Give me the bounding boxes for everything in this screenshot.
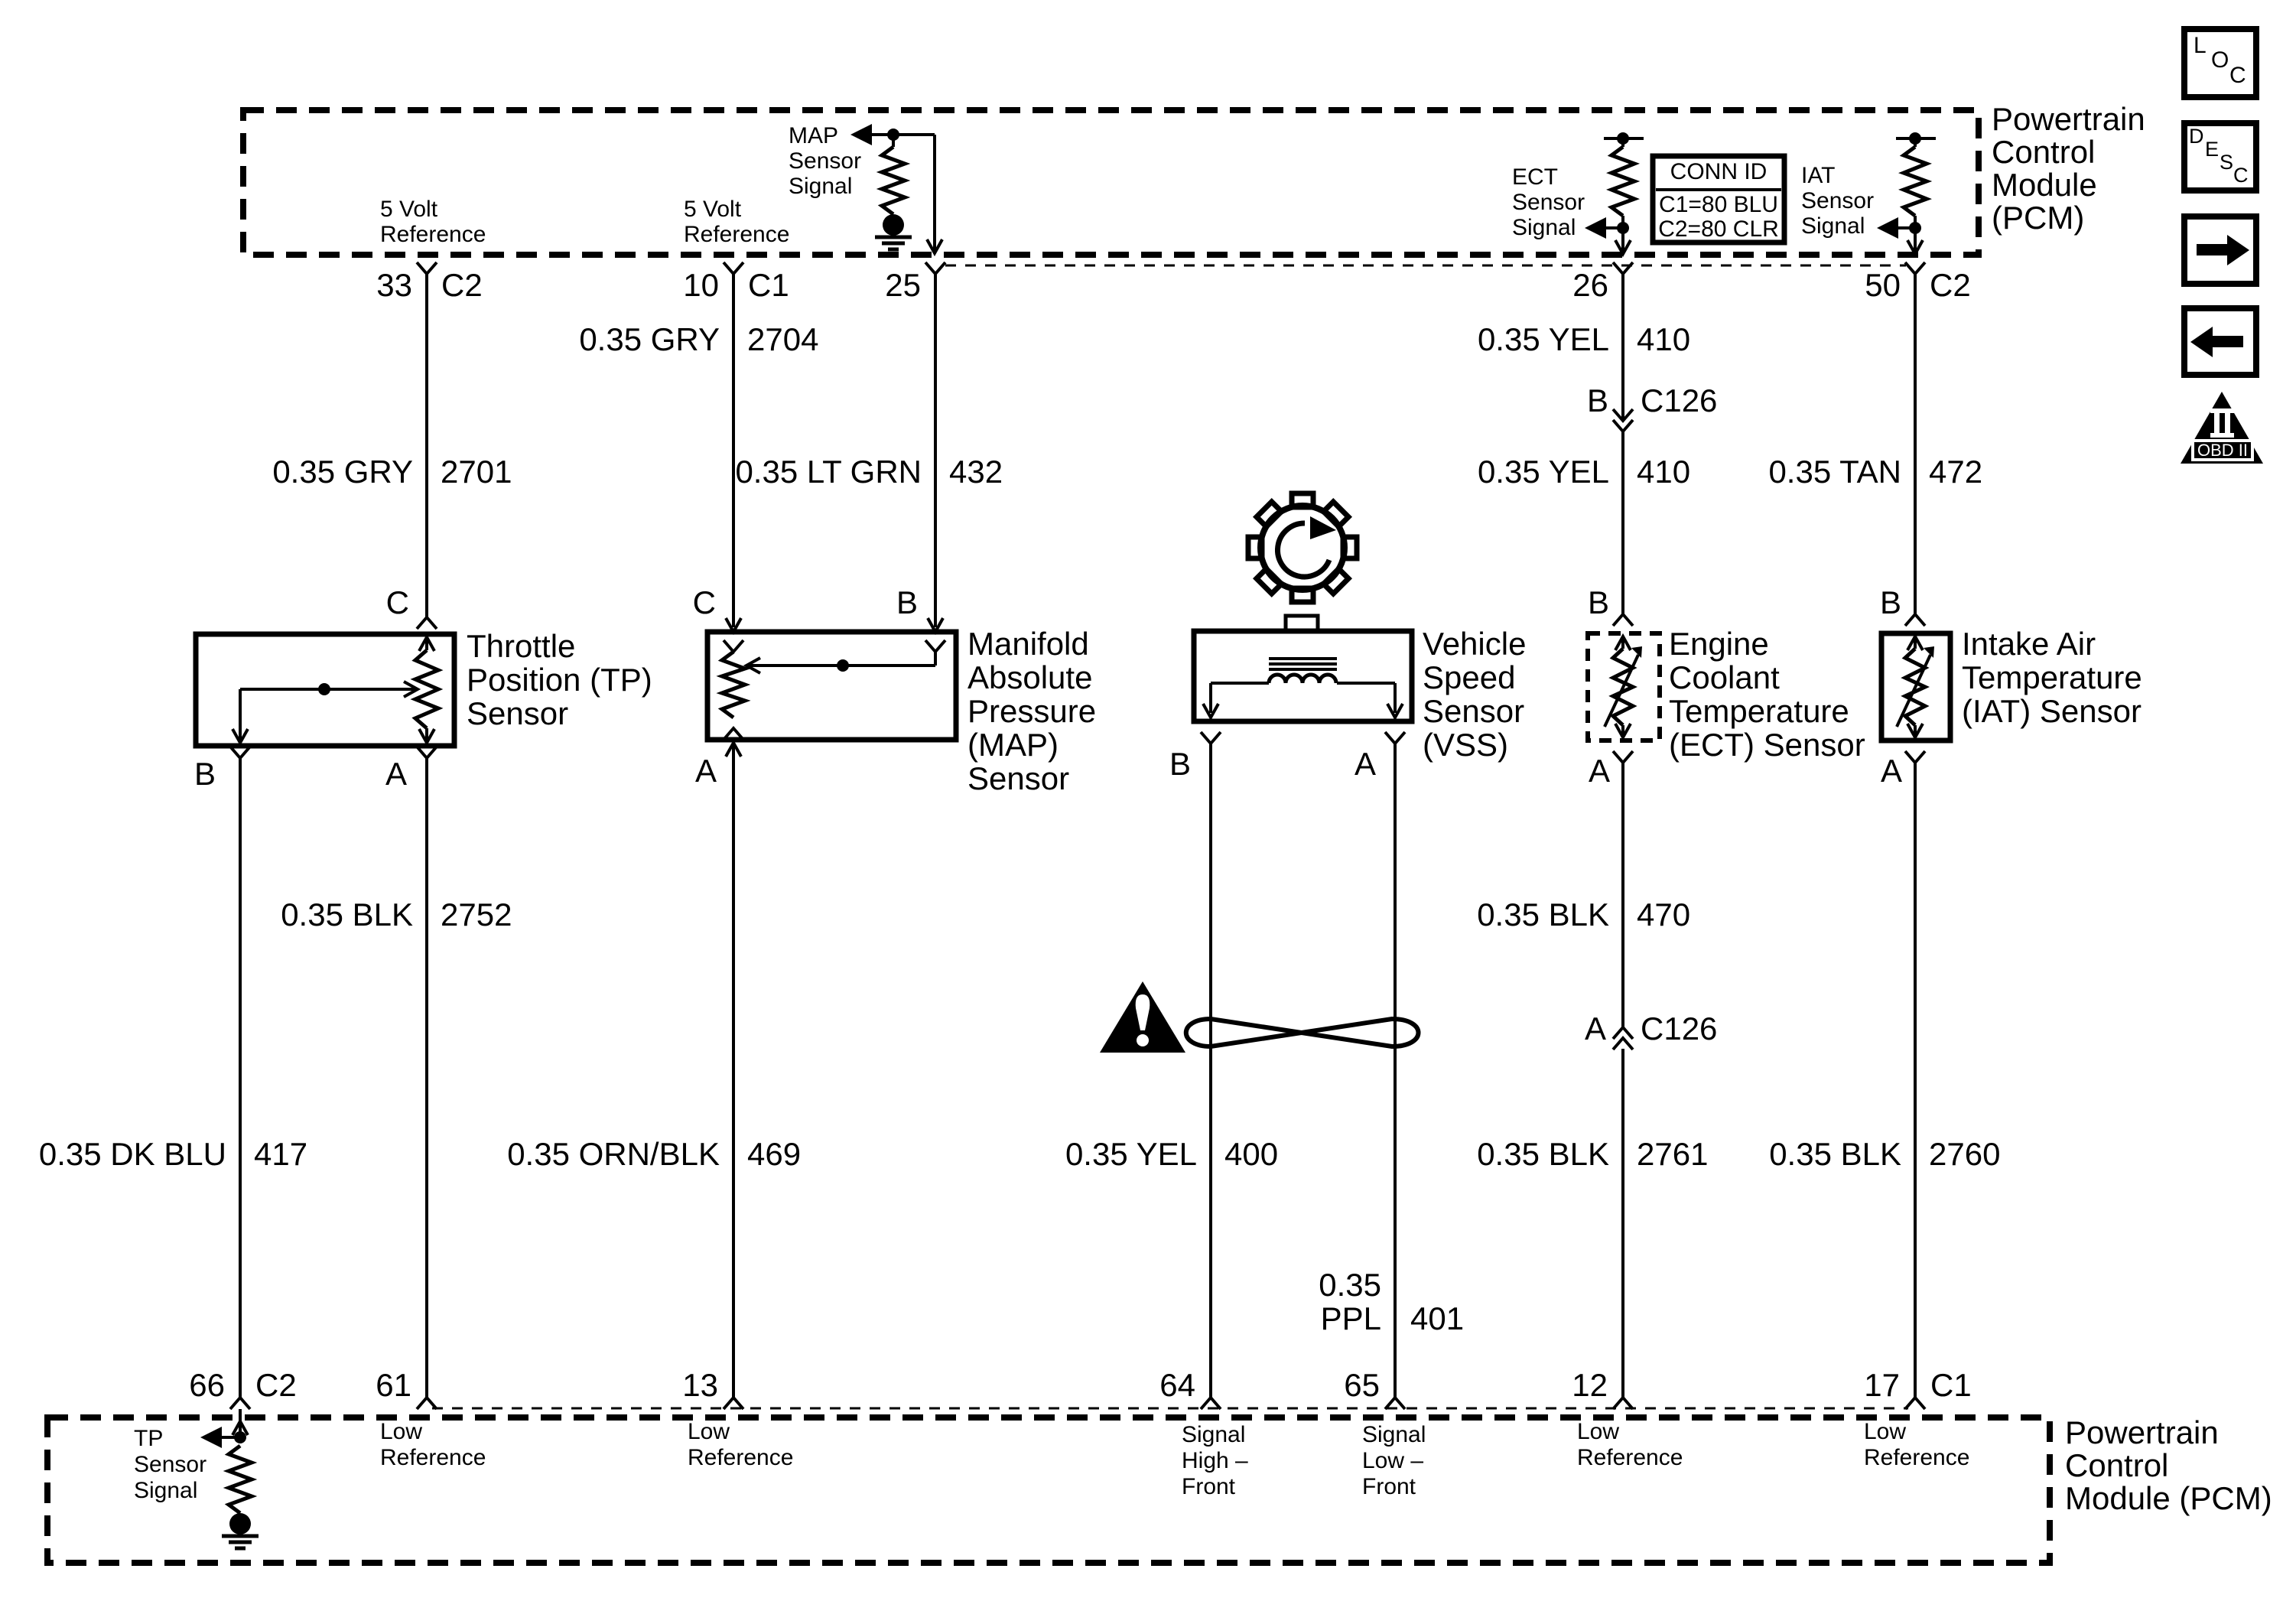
wire: MAP signal down to pin 25 <box>933 135 936 252</box>
svg-text:0.35 TAN: 0.35 TAN <box>1768 454 1901 490</box>
svg-text:Reference: Reference <box>688 1445 793 1470</box>
svg-text:E: E <box>2205 138 2219 161</box>
inductor: VSS pickup coil <box>1269 675 1336 683</box>
svg-text:Low –: Low – <box>1362 1448 1423 1473</box>
svg-text:2704: 2704 <box>747 321 818 357</box>
svg-text:0.35 ORN/BLK: 0.35 ORN/BLK <box>507 1136 720 1172</box>
Manifold Absolute Pressure (MAP) Sensor box <box>707 632 956 740</box>
svg-text:410: 410 <box>1637 321 1690 357</box>
PCM top dashed box (Powertrain Control Module) <box>243 110 1979 255</box>
pin A fork (VSS) <box>1385 732 1405 744</box>
warning triangle <box>1100 981 1185 1053</box>
wire: TP signal (0.35 DK BLU 417) <box>239 758 242 1398</box>
svg-text:TP: TP <box>134 1426 163 1451</box>
ground: TP internal <box>229 1513 251 1535</box>
svg-text:Low: Low <box>688 1419 730 1444</box>
svg-text:10: 10 <box>683 267 719 303</box>
svg-text:A: A <box>1585 1011 1606 1046</box>
wire: IAT internal top bar <box>1896 137 1936 140</box>
svg-text:401: 401 <box>1410 1300 1464 1336</box>
wire: VSS signal high (0.35 YEL 400) <box>1209 744 1212 1398</box>
svg-text:Sensor: Sensor <box>1801 188 1874 213</box>
pin A fork (ECT) <box>1613 751 1633 763</box>
MAP internal bottom fork <box>724 728 743 740</box>
pin 26 connector fork (PCM top) <box>1613 262 1633 274</box>
svg-text:Low: Low <box>380 1419 422 1444</box>
svg-text:B: B <box>1587 382 1608 418</box>
svg-text:0.35 LT GRN: 0.35 LT GRN <box>735 454 922 490</box>
svg-text:Reference: Reference <box>380 222 486 247</box>
pin A arrow into MAP <box>726 743 741 757</box>
svg-text:D: D <box>2189 125 2204 148</box>
svg-text:2701: 2701 <box>441 454 512 490</box>
wire: pin 66 into PCM <box>239 1409 242 1437</box>
OBD II triangle icon <box>2181 392 2263 464</box>
junction node ECT signal <box>1617 222 1629 234</box>
svg-text:Powertrain: Powertrain <box>2065 1414 2219 1450</box>
svg-text:OBD II: OBD II <box>2197 441 2248 460</box>
svg-text:Vehicle: Vehicle <box>1423 626 1526 662</box>
svg-text:IAT: IAT <box>1801 163 1835 188</box>
svg-text:0.35 YEL: 0.35 YEL <box>1478 321 1609 357</box>
pin B fork at ECT sensor <box>1613 614 1633 626</box>
svg-text:C2: C2 <box>255 1367 297 1403</box>
svg-text:PPL: PPL <box>1321 1300 1381 1336</box>
svg-text:L: L <box>2194 33 2207 58</box>
svg-text:C: C <box>2229 63 2246 88</box>
svg-text:Sensor: Sensor <box>968 760 1069 796</box>
pin B fork (VSS) <box>1201 732 1221 744</box>
wire: ECT signal lower segment (0.35 YEL 410) <box>1621 431 1624 614</box>
twisted pair symbol (VSS wires) <box>1186 1019 1419 1046</box>
svg-text:Pressure: Pressure <box>968 693 1096 729</box>
svg-text:A: A <box>695 753 717 789</box>
svg-text:13: 13 <box>682 1367 718 1403</box>
svg-text:Sensor: Sensor <box>1423 693 1524 729</box>
svg-text:O: O <box>2211 47 2229 73</box>
wire: MAP low reference (0.35 ORN/BLK 469) <box>732 758 735 1398</box>
svg-text:0.35 GRY: 0.35 GRY <box>579 321 720 357</box>
svg-text:0.35 DK BLU: 0.35 DK BLU <box>39 1136 226 1172</box>
VSS mounting tab <box>1286 616 1318 631</box>
wire: MAP signal horizontal run <box>872 133 935 136</box>
svg-text:B: B <box>1880 584 1901 620</box>
TP wiper arm <box>240 688 415 691</box>
svg-text:Sensor: Sensor <box>134 1452 207 1477</box>
svg-text:Signal: Signal <box>1182 1422 1245 1447</box>
svg-text:17: 17 <box>1864 1367 1900 1403</box>
junction node TP signal <box>234 1431 246 1443</box>
wire: ECT low ref upper (0.35 BLK 470) <box>1621 763 1624 1027</box>
svg-text:C2=80 CLR: C2=80 CLR <box>1658 216 1779 242</box>
resistor: PCM internal pull-up (IAT) <box>1914 138 1917 147</box>
pin A fork (IAT) <box>1905 751 1925 763</box>
VSS core bars <box>1269 657 1337 660</box>
junction node IAT top <box>1909 132 1921 145</box>
pin 12 connector fork (PCM bottom) <box>1613 1398 1633 1409</box>
svg-text:Position (TP): Position (TP) <box>467 662 652 698</box>
ground: MAP internal <box>883 214 904 236</box>
svg-text:5 Volt: 5 Volt <box>684 197 742 222</box>
svg-text:S: S <box>2220 151 2233 174</box>
IAT variable arrow <box>1897 655 1930 727</box>
pin 50 connector fork (PCM top) <box>1905 262 1925 274</box>
svg-text:2760: 2760 <box>1929 1136 2000 1172</box>
svg-text:470: 470 <box>1637 897 1690 932</box>
svg-text:432: 432 <box>949 454 1003 490</box>
svg-text:C: C <box>386 584 409 620</box>
svg-text:0.35 YEL: 0.35 YEL <box>1065 1136 1197 1172</box>
junction node ECT top <box>1617 132 1629 145</box>
connector C126 pin B (in-line) <box>1613 409 1633 421</box>
svg-text:Reference: Reference <box>684 222 789 247</box>
Throttle Position (TP) Sensor box <box>196 634 454 746</box>
wire: MAP signal to MAP sensor (0.35 LT GRN 432) <box>934 274 937 627</box>
svg-text:Signal: Signal <box>789 174 852 199</box>
connector line thin dashed (bottom) <box>432 1408 1908 1410</box>
wire: ECT signal upper segment (0.35 YEL 410) <box>1621 274 1624 418</box>
resistor: TP potentiometer <box>419 637 434 651</box>
wire arrow into pin 50 <box>1907 240 1923 254</box>
LOC icon box <box>2184 29 2256 97</box>
ECT variable arrow <box>1605 655 1638 727</box>
svg-text:Signal: Signal <box>1801 213 1865 239</box>
resistor: IAT thermistor <box>1907 636 1923 650</box>
svg-text:C126: C126 <box>1641 1011 1717 1046</box>
svg-text:(MAP): (MAP) <box>968 727 1059 763</box>
svg-text:A: A <box>1589 753 1610 789</box>
svg-text:Control: Control <box>2065 1447 2168 1483</box>
MAP signal arrow (solid, points left) <box>850 124 872 145</box>
svg-text:B: B <box>194 756 216 792</box>
svg-text:(IAT) Sensor: (IAT) Sensor <box>1962 693 2142 729</box>
svg-text:A: A <box>385 756 407 792</box>
svg-text:Reference: Reference <box>1577 1445 1683 1470</box>
wire: MAP internal wiper <box>934 652 937 666</box>
svg-text:26: 26 <box>1572 267 1608 303</box>
svg-text:C1: C1 <box>748 267 789 303</box>
wire: IAT low reference (0.35 BLK 2760) <box>1914 763 1917 1398</box>
VSS reluctor gear icon <box>1248 493 1357 602</box>
svg-text:Speed: Speed <box>1423 659 1515 695</box>
svg-text:MAP: MAP <box>789 123 838 148</box>
svg-text:(VSS): (VSS) <box>1423 727 1508 763</box>
ECT signal arrow (solid, points left) <box>1585 217 1606 239</box>
TP signal arrow (solid, points left) <box>200 1427 222 1448</box>
svg-text:High –: High – <box>1182 1448 1248 1473</box>
wire arrow into pin 26 <box>1615 240 1631 254</box>
pin 25 connector fork (PCM top) <box>925 262 945 274</box>
svg-text:Temperature: Temperature <box>1669 693 1849 729</box>
Vehicle Speed Sensor (VSS) box <box>1194 631 1412 721</box>
svg-text:A: A <box>1355 746 1376 782</box>
svg-text:25: 25 <box>885 267 921 303</box>
svg-text:Sensor: Sensor <box>467 695 568 731</box>
svg-text:B: B <box>1588 584 1609 620</box>
svg-text:Reference: Reference <box>1864 1445 1969 1470</box>
pin 61 connector fork (PCM bottom) <box>417 1398 437 1409</box>
pin 13 connector fork (PCM bottom) <box>724 1398 743 1409</box>
pin 65 connector fork (PCM bottom) <box>1385 1398 1405 1409</box>
svg-text:A: A <box>1881 753 1902 789</box>
svg-text:Engine: Engine <box>1669 626 1769 662</box>
svg-text:0.35 BLK: 0.35 BLK <box>1477 897 1609 932</box>
svg-text:C1=80 BLU: C1=80 BLU <box>1659 192 1778 217</box>
wire: IAT signal stub <box>1895 226 1915 229</box>
pin B fork at IAT sensor <box>1905 614 1925 626</box>
svg-text:Absolute: Absolute <box>968 659 1092 695</box>
svg-text:65: 65 <box>1344 1367 1380 1403</box>
CONN ID table <box>1653 156 1784 242</box>
resistor: MAP element <box>722 652 745 718</box>
svg-text:0.35 BLK: 0.35 BLK <box>281 897 413 932</box>
pin 10 connector fork (PCM top) <box>724 262 743 274</box>
svg-text:Low: Low <box>1864 1419 1906 1444</box>
svg-text:410: 410 <box>1637 454 1690 490</box>
svg-text:ECT: ECT <box>1512 164 1558 190</box>
resistor: PCM internal pull-up (ECT) <box>1621 138 1624 147</box>
MAP internal pin B fork <box>925 640 945 652</box>
resistor: ECT thermistor <box>1615 636 1631 650</box>
svg-text:Temperature: Temperature <box>1962 659 2142 695</box>
svg-text:64: 64 <box>1159 1367 1195 1403</box>
pin 64 connector fork (PCM bottom) <box>1201 1398 1221 1409</box>
svg-text:Coolant: Coolant <box>1669 659 1780 695</box>
pin 66 connector fork (PCM bottom) <box>230 1398 250 1409</box>
pin 17 connector fork (PCM bottom) <box>1905 1398 1925 1409</box>
junction node on MAP signal line <box>887 129 899 141</box>
svg-text:469: 469 <box>747 1136 801 1172</box>
svg-text:5 Volt: 5 Volt <box>380 197 438 222</box>
svg-text:2752: 2752 <box>441 897 512 932</box>
wire: ECT low ref lower (0.35 BLK 2761) <box>1621 1049 1624 1398</box>
svg-text:C2: C2 <box>1930 267 1971 303</box>
svg-text:C: C <box>2233 164 2249 187</box>
pin A fork (TP) <box>417 747 437 758</box>
svg-text:Signal: Signal <box>1512 215 1576 240</box>
svg-text:0.35: 0.35 <box>1319 1267 1381 1303</box>
pin 33 connector fork (PCM top) <box>417 262 437 274</box>
svg-text:Throttle: Throttle <box>467 628 575 664</box>
svg-text:472: 472 <box>1929 454 1982 490</box>
svg-text:2761: 2761 <box>1637 1136 1708 1172</box>
svg-text:Control: Control <box>1992 134 2095 170</box>
svg-text:Powertrain: Powertrain <box>1992 101 2145 137</box>
svg-text:Signal: Signal <box>134 1478 197 1503</box>
wire: 5V ref to MAP sensor (0.35 GRY 2704 / LT GRN) <box>732 274 735 627</box>
MAP internal pin C fork <box>724 640 743 652</box>
svg-text:Front: Front <box>1362 1474 1416 1499</box>
svg-text:66: 66 <box>189 1367 225 1403</box>
resistor: PCM internal pull-up (MAP) <box>892 135 895 147</box>
wire: TP low reference (0.35 BLK 2752) <box>425 758 428 1398</box>
svg-text:0.35 YEL: 0.35 YEL <box>1478 454 1609 490</box>
DESC icon box <box>2184 123 2256 190</box>
svg-text:400: 400 <box>1224 1136 1278 1172</box>
Engine Coolant Temperature (ECT) Sensor dashed box <box>1588 633 1660 740</box>
resistor: PCM internal (TP) <box>229 1446 252 1513</box>
left arrow icon box <box>2184 308 2256 375</box>
svg-text:Sensor: Sensor <box>1512 190 1585 215</box>
svg-text:50: 50 <box>1865 267 1901 303</box>
svg-text:C126: C126 <box>1641 382 1717 418</box>
svg-text:CONN ID: CONN ID <box>1670 159 1768 184</box>
svg-text:0.35 BLK: 0.35 BLK <box>1477 1136 1609 1172</box>
svg-text:33: 33 <box>376 267 412 303</box>
svg-text:C1: C1 <box>1930 1367 1972 1403</box>
svg-text:61: 61 <box>376 1367 411 1403</box>
pin C fork at TP sensor <box>417 617 437 629</box>
wire: ECT signal stub <box>1603 226 1623 229</box>
wire: VSS coil to pins <box>1211 682 1269 685</box>
svg-text:Signal: Signal <box>1362 1422 1426 1447</box>
wire: 5V ref to TP sensor (0.35 GRY 2701) <box>425 274 428 617</box>
Intake Air Temperature (IAT) Sensor box <box>1881 633 1950 740</box>
svg-text:0.35 BLK: 0.35 BLK <box>1769 1136 1901 1172</box>
wire: TP signal stub <box>220 1436 240 1439</box>
svg-text:Module (PCM): Module (PCM) <box>2065 1480 2272 1516</box>
svg-text:Intake Air: Intake Air <box>1962 626 2096 662</box>
svg-text:Front: Front <box>1182 1474 1236 1499</box>
svg-text:Module: Module <box>1992 167 2097 203</box>
svg-text:B: B <box>1169 746 1191 782</box>
PCM bottom dashed box (Powertrain Control Module) <box>47 1417 2050 1563</box>
svg-text:C2: C2 <box>441 267 483 303</box>
svg-text:Reference: Reference <box>380 1445 486 1470</box>
svg-text:12: 12 <box>1572 1367 1608 1403</box>
IAT signal arrow (solid, points left) <box>1877 217 1898 239</box>
pin B fork (TP) <box>230 747 250 758</box>
svg-text:417: 417 <box>254 1136 307 1172</box>
wire: ECT internal top bar <box>1604 137 1644 140</box>
svg-text:(PCM): (PCM) <box>1992 200 2084 236</box>
svg-text:Sensor: Sensor <box>789 148 861 174</box>
svg-text:0.35 GRY: 0.35 GRY <box>272 454 413 490</box>
junction node IAT signal <box>1909 222 1921 234</box>
svg-text:B: B <box>896 584 918 620</box>
svg-text:Manifold: Manifold <box>968 626 1089 662</box>
svg-text:Low: Low <box>1577 1419 1619 1444</box>
connector C126 pin A (in-line) <box>1613 1027 1633 1039</box>
connector line C1/C2 thin dashed (top) <box>945 265 1906 267</box>
svg-text:(ECT) Sensor: (ECT) Sensor <box>1669 727 1865 763</box>
wire: VSS signal low (0.35 PPL 401) <box>1394 744 1397 1398</box>
svg-text:C: C <box>693 584 716 620</box>
wire: IAT signal (0.35 TAN 472) <box>1914 274 1917 614</box>
right arrow icon box <box>2184 216 2256 284</box>
